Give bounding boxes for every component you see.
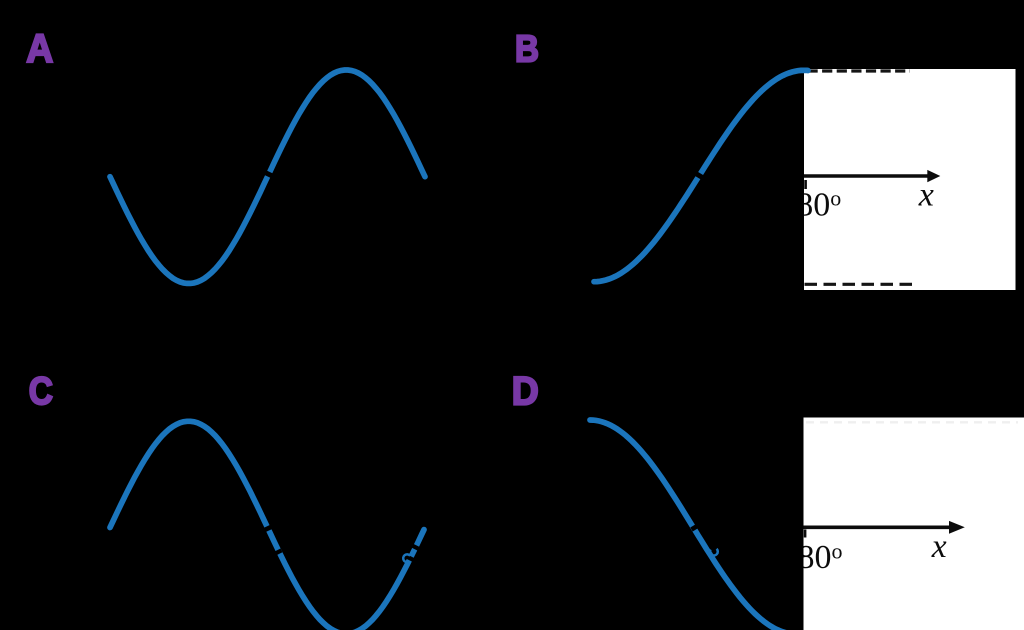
x axis arrow in box D	[804, 525, 952, 529]
wave curve D	[590, 420, 801, 630]
stroke break on curve B	[696, 174, 706, 180]
svg-text:D: D	[512, 370, 539, 414]
svg-text:B: B	[515, 29, 539, 71]
white box D	[804, 418, 1024, 630]
x axis arrow in box B	[804, 174, 929, 178]
svg-text:A: A	[26, 27, 53, 71]
wave curve C	[110, 421, 424, 630]
dashed crest line in box B	[808, 69, 911, 72]
small hook artifact on curve D	[710, 549, 718, 556]
axis tick in box B	[804, 180, 807, 189]
svg-text:x: x	[931, 528, 947, 565]
dashed trough line in box B	[805, 283, 917, 286]
label 180 deg in box B	[779, 186, 841, 224]
axis tick in box D	[804, 530, 807, 538]
wave curve B	[594, 70, 808, 281]
stroke breaks on curve C	[262, 527, 271, 531]
svg-text:x: x	[918, 176, 934, 213]
label 180 deg in box D	[781, 538, 843, 576]
white box B	[804, 69, 1016, 290]
wave curve A	[110, 70, 425, 283]
stroke break on curve A	[265, 172, 275, 177]
faint dashed line in box D	[806, 421, 1018, 423]
small hook artifact on curve C	[403, 554, 410, 562]
svg-text:C: C	[29, 370, 53, 413]
stroke break on curve D	[692, 524, 701, 529]
